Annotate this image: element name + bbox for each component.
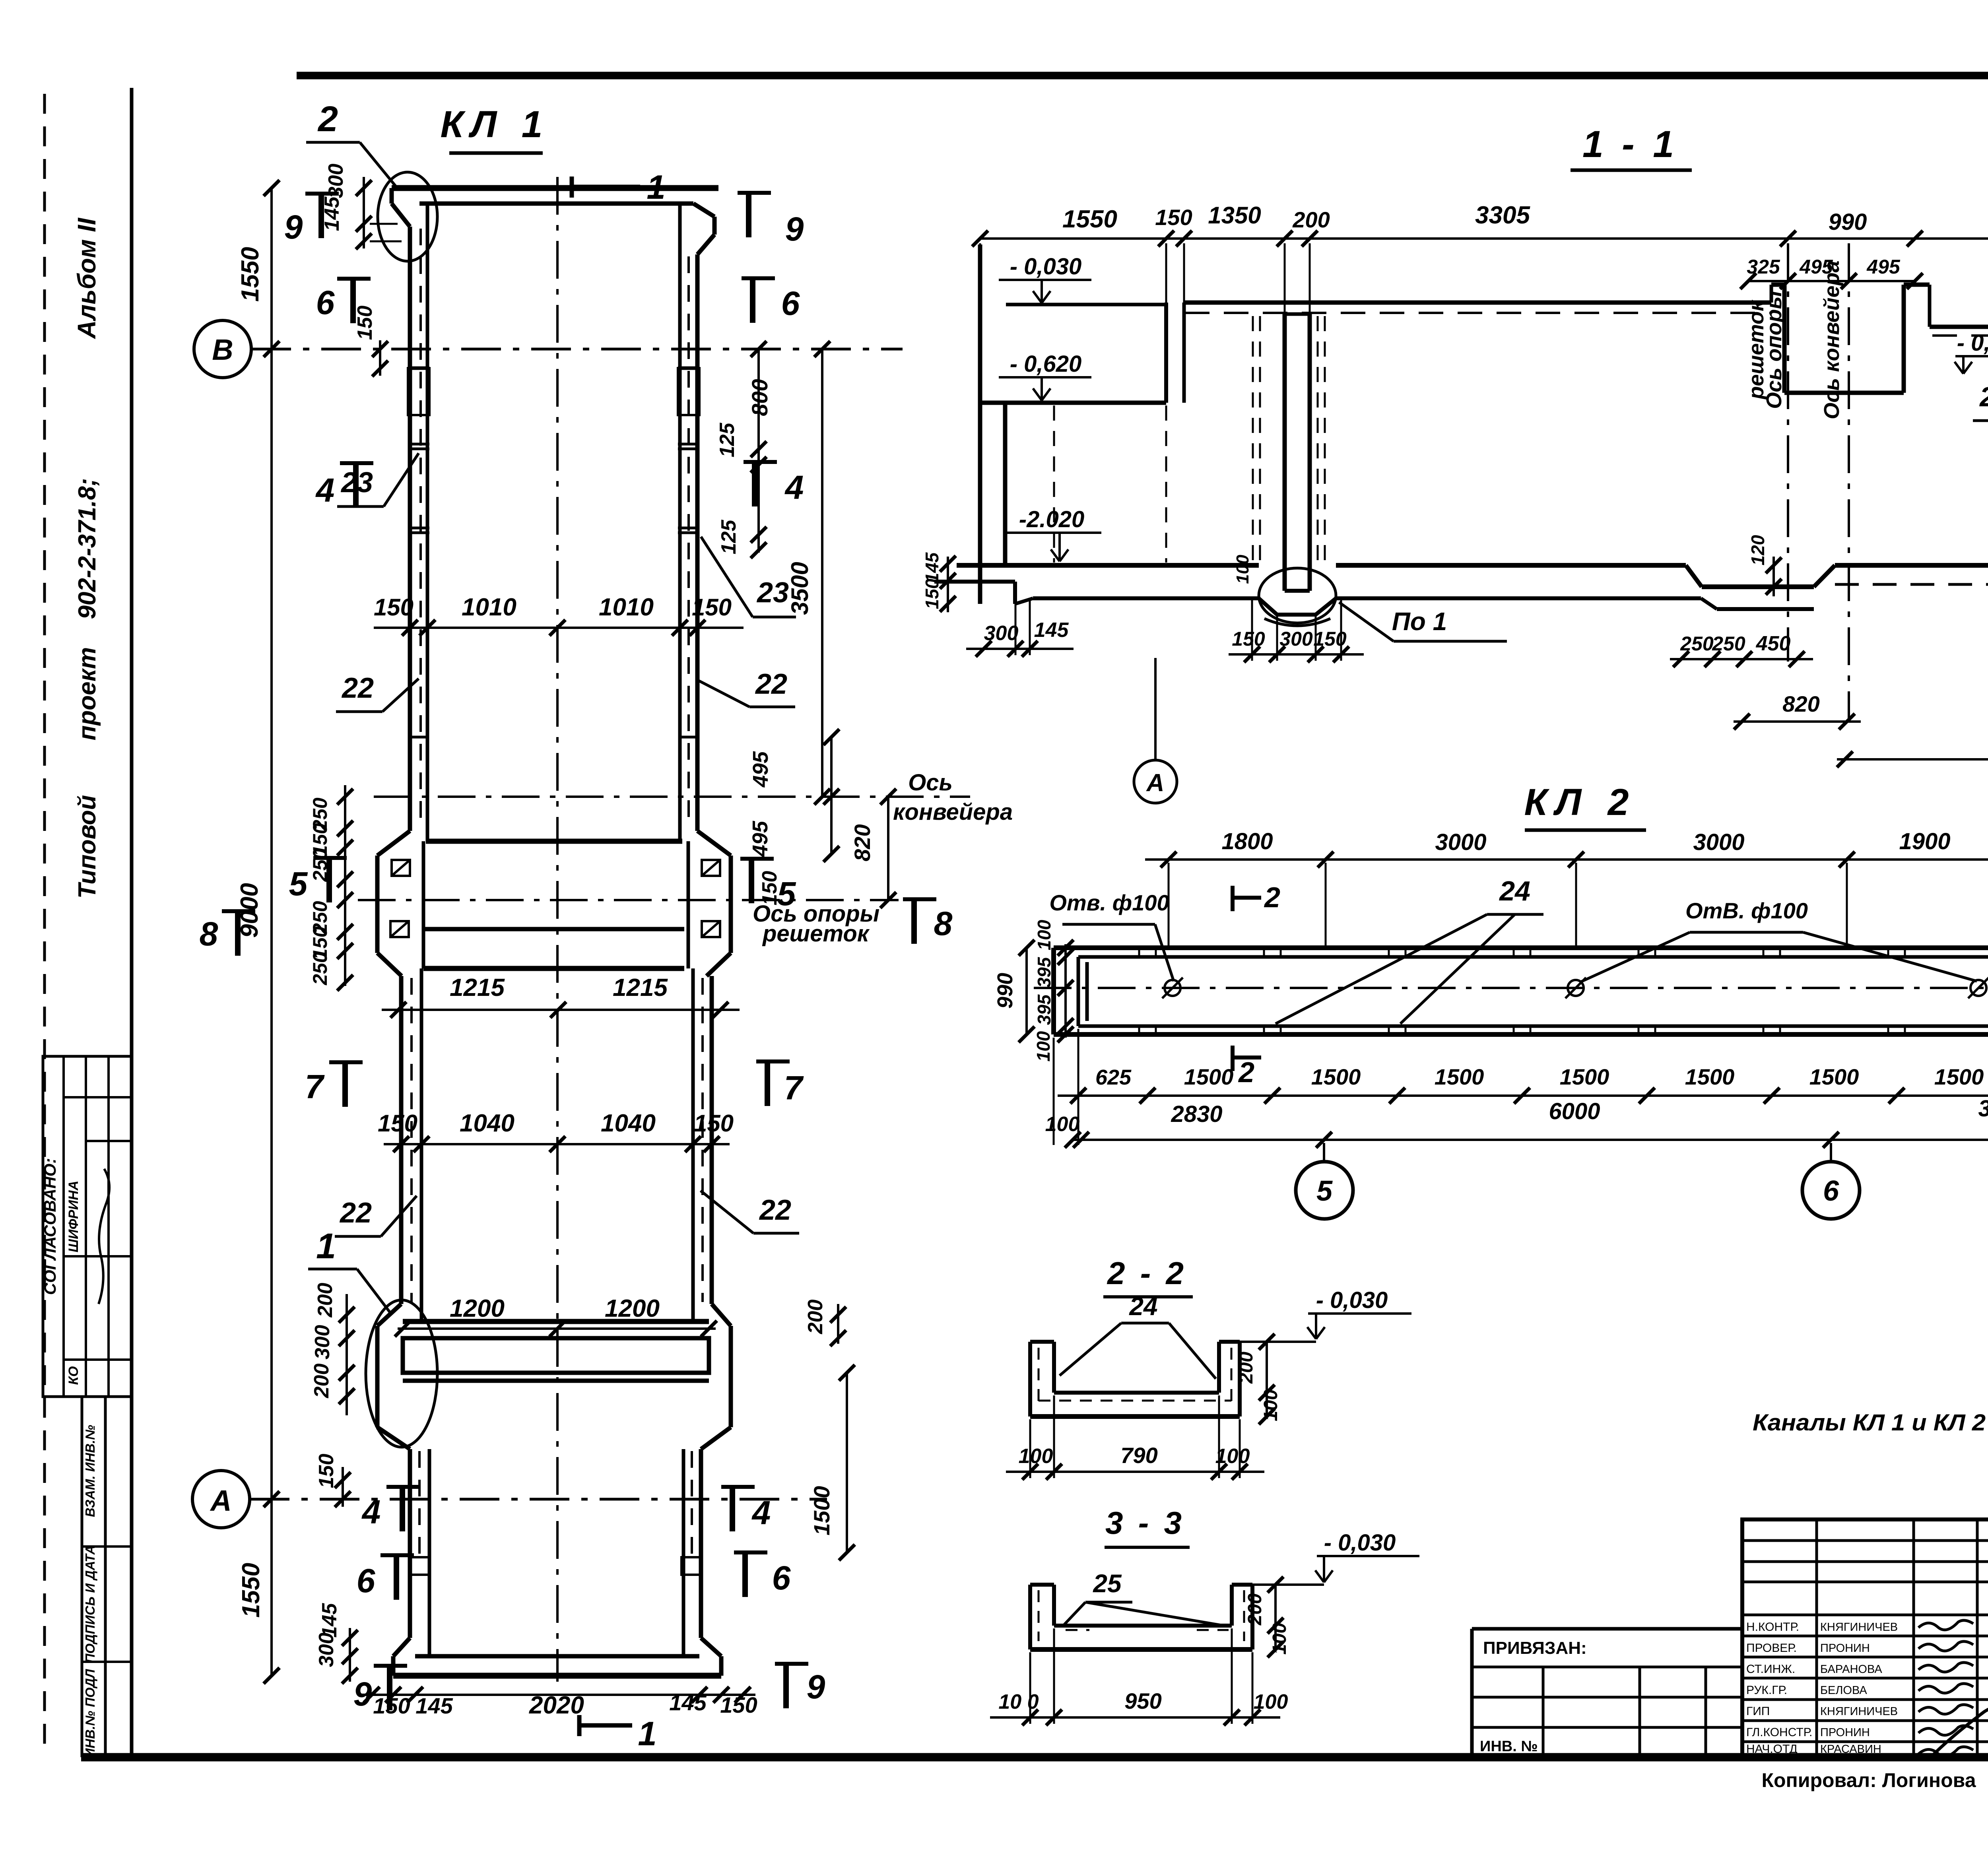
svg-text:150: 150 bbox=[692, 594, 732, 621]
svg-text:100: 100 bbox=[1019, 1445, 1053, 1468]
svg-text:А: А bbox=[1146, 769, 1165, 797]
svg-text:3000: 3000 bbox=[1693, 829, 1744, 855]
svg-text:125: 125 bbox=[716, 423, 739, 458]
svg-text:7: 7 bbox=[784, 1069, 804, 1106]
svg-text:1200: 1200 bbox=[450, 1295, 505, 1322]
svg-text:100: 100 bbox=[1033, 1031, 1054, 1061]
svg-text:790: 790 bbox=[1120, 1443, 1157, 1468]
svg-text:150: 150 bbox=[1232, 628, 1265, 650]
svg-text:2 - 2: 2 - 2 bbox=[1107, 1255, 1187, 1291]
svg-text:решеток: решеток bbox=[762, 921, 870, 947]
svg-text:4: 4 bbox=[784, 469, 804, 506]
svg-text:300: 300 bbox=[984, 622, 1019, 645]
svg-text:200: 200 bbox=[314, 1283, 337, 1318]
svg-text:3 - 3: 3 - 3 bbox=[1105, 1505, 1185, 1541]
svg-text:325: 325 bbox=[1747, 256, 1780, 278]
svg-text:1550: 1550 bbox=[237, 1563, 265, 1618]
svg-text:9: 9 bbox=[284, 208, 303, 246]
svg-text:2: 2 bbox=[1264, 882, 1280, 914]
svg-text:150: 150 bbox=[315, 1454, 338, 1488]
svg-text:902-2-371.8;: 902-2-371.8; bbox=[74, 478, 101, 619]
svg-text:9: 9 bbox=[785, 210, 804, 248]
svg-text:КНЯГИНИЧЕВ: КНЯГИНИЧЕВ bbox=[1820, 1621, 1898, 1634]
svg-text:3000: 3000 bbox=[1435, 829, 1486, 855]
svg-text:150: 150 bbox=[694, 1110, 734, 1137]
svg-text:7: 7 bbox=[305, 1068, 325, 1105]
svg-text:конвейера: конвейера bbox=[893, 799, 1013, 825]
svg-text:495: 495 bbox=[749, 751, 773, 788]
svg-text:145: 145 bbox=[669, 1690, 707, 1715]
svg-text:1040: 1040 bbox=[460, 1110, 514, 1137]
svg-text:решеток: решеток bbox=[1744, 299, 1768, 400]
svg-text:23: 23 bbox=[1979, 381, 1988, 412]
svg-text:100: 100 bbox=[1045, 1113, 1080, 1136]
svg-text:- 0,030: - 0,030 bbox=[1316, 1287, 1388, 1313]
svg-text:1: 1 bbox=[316, 1226, 336, 1266]
svg-text:1010: 1010 bbox=[462, 594, 516, 621]
svg-text:БАРАНОВА: БАРАНОВА bbox=[1820, 1663, 1882, 1676]
svg-text:200: 200 bbox=[310, 1364, 333, 1399]
svg-text:БЕЛОВА: БЕЛОВА bbox=[1820, 1684, 1867, 1697]
svg-text:ОтВ. ф100: ОтВ. ф100 bbox=[1685, 898, 1808, 923]
svg-text:9: 9 bbox=[353, 1675, 372, 1713]
svg-text:Ось конвейера: Ось конвейера bbox=[1820, 260, 1844, 419]
svg-text:3000: 3000 bbox=[1978, 1096, 1988, 1122]
svg-text:6: 6 bbox=[781, 285, 800, 322]
svg-text:6: 6 bbox=[1823, 1175, 1839, 1207]
svg-text:495: 495 bbox=[1866, 256, 1901, 278]
svg-text:ПРИВЯЗАН:: ПРИВЯЗАН: bbox=[1483, 1638, 1587, 1658]
svg-text:СТ.ИНЖ.: СТ.ИНЖ. bbox=[1746, 1663, 1795, 1676]
svg-text:250: 250 bbox=[309, 952, 331, 986]
svg-text:150: 150 bbox=[353, 306, 377, 340]
svg-text:2: 2 bbox=[1238, 1057, 1254, 1089]
svg-text:8: 8 bbox=[200, 915, 218, 953]
svg-text:3500: 3500 bbox=[786, 562, 813, 615]
svg-text:1500: 1500 bbox=[1184, 1064, 1234, 1089]
svg-text:В: В bbox=[212, 333, 233, 366]
svg-text:Отв. ф100: Отв. ф100 bbox=[1049, 890, 1169, 915]
svg-text:5: 5 bbox=[1316, 1175, 1333, 1207]
svg-text:250: 250 bbox=[1712, 633, 1745, 655]
svg-text:23: 23 bbox=[756, 577, 789, 609]
svg-text:22: 22 bbox=[339, 1197, 372, 1229]
svg-text:4: 4 bbox=[751, 1494, 771, 1531]
svg-text:100: 100 bbox=[1254, 1690, 1288, 1713]
svg-text:РУК.ГР.: РУК.ГР. bbox=[1746, 1684, 1787, 1697]
svg-text:1350: 1350 bbox=[1208, 202, 1261, 229]
svg-text:ИНВ.№ ПОДЛ: ИНВ.№ ПОДЛ bbox=[83, 1669, 97, 1758]
svg-text:25: 25 bbox=[1093, 1569, 1122, 1598]
svg-text:250: 250 bbox=[1680, 633, 1714, 655]
svg-text:150: 150 bbox=[720, 1692, 757, 1717]
svg-text:100: 100 bbox=[1215, 1445, 1250, 1468]
svg-text:6: 6 bbox=[357, 1562, 376, 1599]
svg-text:Альбом II: Альбом II bbox=[72, 217, 101, 340]
svg-text:ИНВ. №: ИНВ. № bbox=[1480, 1738, 1538, 1755]
svg-text:145: 145 bbox=[922, 552, 942, 583]
svg-text:1200: 1200 bbox=[605, 1295, 660, 1322]
svg-text:990: 990 bbox=[993, 973, 1017, 1009]
svg-text:- 0,030: - 0,030 bbox=[1324, 1530, 1396, 1556]
svg-text:300: 300 bbox=[315, 1633, 338, 1667]
svg-text:ГЛ.КОНСТР.: ГЛ.КОНСТР. bbox=[1746, 1726, 1812, 1739]
svg-text:КНЯГИНИЧЕВ: КНЯГИНИЧЕВ bbox=[1820, 1705, 1898, 1718]
svg-text:4: 4 bbox=[315, 472, 335, 509]
svg-text:150: 150 bbox=[1155, 205, 1192, 230]
svg-text:100: 100 bbox=[1034, 920, 1054, 950]
svg-text:1215: 1215 bbox=[613, 974, 668, 1001]
svg-text:ПРОВЕР.: ПРОВЕР. bbox=[1746, 1642, 1797, 1655]
svg-text:395: 395 bbox=[1034, 957, 1054, 988]
svg-text:- 0,620: - 0,620 bbox=[1010, 351, 1082, 377]
svg-text:24: 24 bbox=[1129, 1292, 1157, 1321]
svg-text:По 1: По 1 bbox=[1392, 607, 1447, 636]
svg-text:300: 300 bbox=[311, 1325, 334, 1360]
svg-text:А: А bbox=[210, 1484, 231, 1517]
svg-text:1010: 1010 bbox=[599, 594, 654, 621]
svg-text:5: 5 bbox=[777, 875, 796, 912]
svg-text:1 - 1: 1 - 1 bbox=[1582, 123, 1678, 165]
svg-text:820: 820 bbox=[1782, 691, 1819, 716]
svg-text:1500: 1500 bbox=[1685, 1064, 1735, 1089]
svg-text:100: 100 bbox=[1260, 1389, 1281, 1421]
svg-text:22: 22 bbox=[755, 668, 787, 700]
svg-text:8: 8 bbox=[934, 905, 953, 942]
svg-text:22: 22 bbox=[759, 1194, 791, 1226]
svg-text:проект: проект bbox=[74, 647, 101, 741]
svg-text:-2.020: -2.020 bbox=[1019, 506, 1084, 532]
svg-text:1500: 1500 bbox=[809, 1486, 834, 1536]
svg-text:150: 150 bbox=[374, 594, 414, 621]
svg-text:6: 6 bbox=[316, 284, 335, 321]
svg-text:- 0,030: - 0,030 bbox=[1010, 254, 1082, 279]
svg-text:ПРОНИН: ПРОНИН bbox=[1820, 1642, 1870, 1655]
svg-text:1900: 1900 bbox=[1899, 829, 1950, 854]
svg-text:1215: 1215 bbox=[450, 974, 505, 1001]
svg-text:3305: 3305 bbox=[1475, 202, 1530, 229]
svg-text:800: 800 bbox=[747, 379, 772, 416]
svg-text:6000: 6000 bbox=[1549, 1098, 1600, 1124]
svg-text:КО: КО bbox=[66, 1366, 81, 1385]
svg-text:1500: 1500 bbox=[1934, 1064, 1984, 1089]
svg-text:1550: 1550 bbox=[1062, 206, 1117, 233]
svg-text:200: 200 bbox=[804, 1300, 827, 1335]
svg-text:ГИП: ГИП bbox=[1746, 1705, 1770, 1718]
svg-text:120: 120 bbox=[1747, 535, 1768, 565]
svg-text:1040: 1040 bbox=[601, 1110, 656, 1137]
svg-text:1500: 1500 bbox=[1311, 1064, 1361, 1089]
svg-text:125: 125 bbox=[717, 520, 740, 555]
svg-text:- 0,330: - 0,330 bbox=[1957, 330, 1988, 356]
svg-text:ПОДПИСЬ И ДАТА: ПОДПИСЬ И ДАТА bbox=[83, 1545, 97, 1663]
svg-text:1500: 1500 bbox=[1435, 1064, 1484, 1089]
svg-text:200: 200 bbox=[1292, 207, 1330, 232]
svg-text:1500: 1500 bbox=[1809, 1064, 1859, 1089]
svg-text:22: 22 bbox=[341, 672, 374, 704]
svg-text:100: 100 bbox=[1233, 555, 1252, 584]
svg-text:КРАСАВИН: КРАСАВИН bbox=[1820, 1743, 1881, 1756]
svg-text:4: 4 bbox=[361, 1493, 381, 1531]
svg-text:2: 2 bbox=[317, 99, 338, 139]
svg-text:ШИФРИНА: ШИФРИНА bbox=[66, 1181, 81, 1253]
svg-text:950: 950 bbox=[1124, 1688, 1161, 1713]
svg-text:150: 150 bbox=[378, 1110, 417, 1137]
svg-text:1800: 1800 bbox=[1221, 829, 1273, 854]
svg-text:Типовой: Типовой bbox=[74, 795, 101, 899]
svg-text:820: 820 bbox=[850, 824, 875, 861]
svg-text:145: 145 bbox=[318, 1603, 341, 1638]
svg-text:1500: 1500 bbox=[1560, 1064, 1609, 1089]
svg-text:145: 145 bbox=[415, 1693, 453, 1718]
svg-text:395: 395 bbox=[1034, 994, 1054, 1025]
svg-text:5: 5 bbox=[289, 865, 308, 902]
svg-text:990: 990 bbox=[1829, 209, 1867, 235]
svg-text:200: 200 bbox=[1236, 1352, 1257, 1384]
svg-text:100: 100 bbox=[1269, 1623, 1290, 1655]
svg-text:2830: 2830 bbox=[1171, 1101, 1222, 1127]
svg-text:1550: 1550 bbox=[237, 247, 264, 302]
svg-text:СОГЛАСОВАНО:: СОГЛАСОВАНО: bbox=[41, 1158, 59, 1295]
svg-text:ВЗАМ. ИНВ.№: ВЗАМ. ИНВ.№ bbox=[83, 1425, 97, 1517]
svg-text:Н.КОНТР.: Н.КОНТР. bbox=[1746, 1620, 1799, 1634]
svg-text:10 0: 10 0 bbox=[998, 1690, 1039, 1713]
svg-text:КЛ 2: КЛ 2 bbox=[1524, 781, 1637, 823]
svg-text:1: 1 bbox=[638, 1715, 656, 1753]
svg-text:НАЧ.ОТД: НАЧ.ОТД bbox=[1746, 1742, 1798, 1756]
svg-text:2020: 2020 bbox=[529, 1692, 584, 1719]
svg-text:24: 24 bbox=[1499, 875, 1530, 906]
svg-text:200: 200 bbox=[1244, 1593, 1266, 1626]
svg-text:145: 145 bbox=[1034, 619, 1069, 642]
svg-text:Ось: Ось bbox=[908, 770, 953, 796]
svg-text:625: 625 bbox=[1095, 1065, 1132, 1089]
svg-text:КЛ 1: КЛ 1 bbox=[441, 103, 550, 146]
svg-text:ПРОНИН: ПРОНИН bbox=[1820, 1726, 1870, 1739]
svg-text:9: 9 bbox=[807, 1668, 825, 1706]
svg-text:450: 450 bbox=[1756, 632, 1791, 655]
svg-text:300: 300 bbox=[1279, 628, 1313, 650]
svg-text:150: 150 bbox=[922, 578, 942, 609]
svg-text:Копировал: Логинова: Копировал: Логинова bbox=[1761, 1769, 1976, 1791]
svg-text:Каналы КЛ 1 и КЛ 2 Выполня: Каналы КЛ 1 и КЛ 2 Выполнять из бетона М… bbox=[1753, 1410, 1988, 1436]
svg-text:6: 6 bbox=[772, 1559, 791, 1597]
svg-text:495: 495 bbox=[748, 821, 772, 857]
